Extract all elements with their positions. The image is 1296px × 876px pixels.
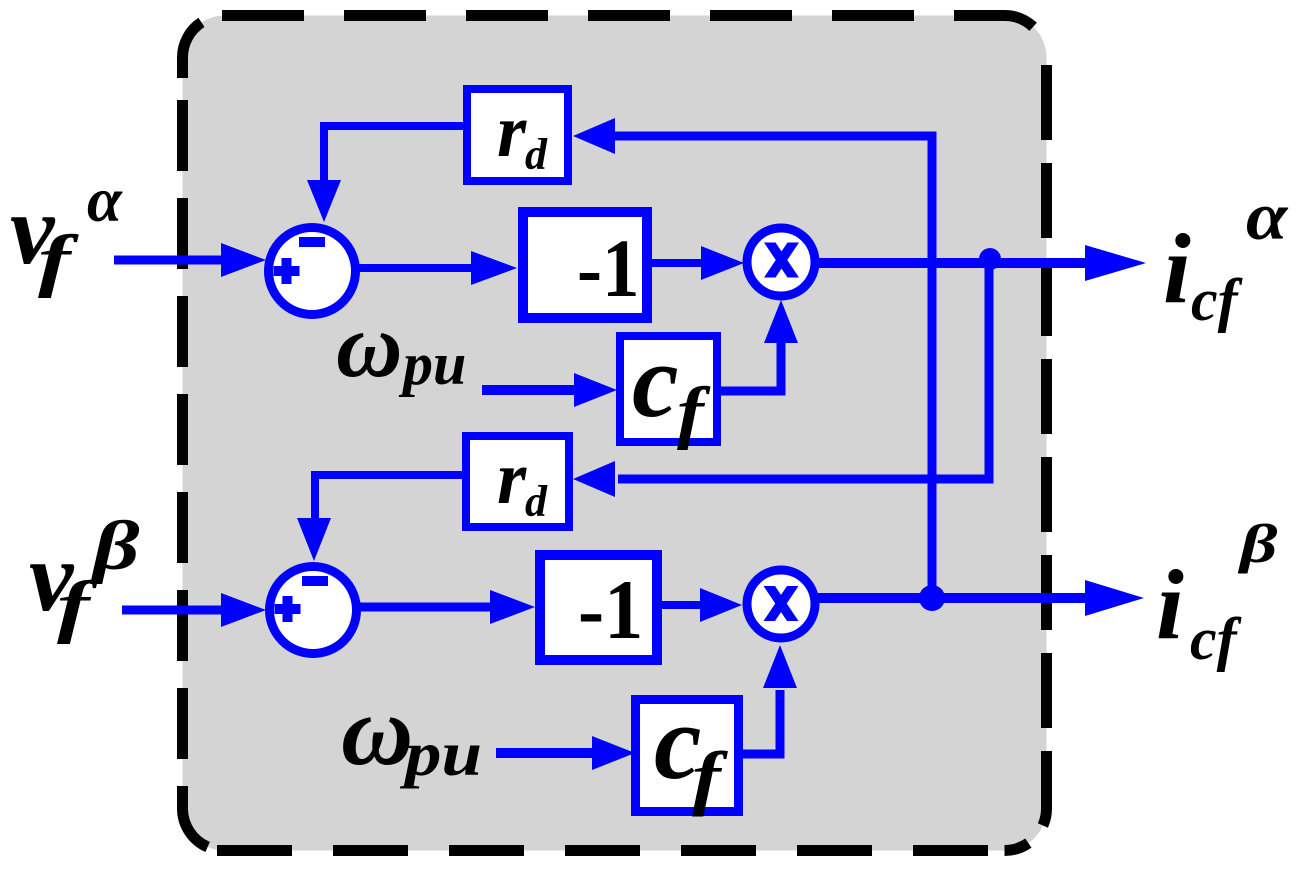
- block rd top: [467, 89, 568, 181]
- svg-text:α: α: [87, 165, 123, 235]
- arrowhead into multiplier top: [701, 246, 744, 280]
- wire cf top output to multiplier: [719, 340, 781, 391]
- -1 bottom box: [540, 555, 657, 660]
- svg-text:-1: -1: [577, 224, 640, 315]
- arrowhead up into multiplier bottom: [763, 645, 797, 688]
- svg-text:f: f: [38, 221, 79, 298]
- M2 cross mark: [764, 586, 799, 621]
- junction dot bottom: [919, 585, 945, 611]
- cf top box: [620, 336, 717, 442]
- sum2 circle: [270, 567, 357, 654]
- wire input vf-beta: [122, 606, 226, 615]
- svg-text:ω: ω: [341, 675, 413, 786]
- arrowhead into cf bottom: [592, 736, 635, 770]
- wire cf bottom output to multiplier: [741, 690, 780, 754]
- border top edge: [222, 16, 1047, 58]
- wire omega arrow top: [482, 385, 578, 395]
- rd bottom box: [466, 436, 569, 527]
- svg-text:r: r: [497, 437, 527, 520]
- multiplier M2 bottom: [747, 570, 815, 638]
- wire block -1 top to multiplier: [650, 259, 706, 267]
- multiplier M1 top: [747, 228, 815, 296]
- wire multiplier top to output: [813, 258, 1090, 268]
- label omega-pu bottom: [341, 675, 482, 789]
- svg-text:c: c: [632, 322, 679, 439]
- arrowhead into multiplier bottom: [700, 588, 742, 622]
- border right edge: [1005, 65, 1047, 851]
- svg-text:ω: ω: [336, 294, 403, 396]
- svg-text:-1: -1: [578, 562, 643, 656]
- svg-text:pu: pu: [398, 331, 466, 397]
- label omega-pu top: [336, 294, 466, 397]
- block rd bottom: [466, 436, 569, 527]
- wire input vf-alpha: [114, 256, 226, 265]
- arrowhead into rd top: [573, 118, 615, 154]
- cf bottom box: [636, 700, 739, 812]
- svg-text:β: β: [1238, 513, 1278, 574]
- svg-text:pu: pu: [400, 718, 482, 789]
- arrowhead down into sum2: [297, 518, 331, 561]
- sum2 minus sign: [302, 576, 328, 586]
- wire multiplier bottom to output: [813, 593, 1090, 603]
- sum1 plus sign: [274, 266, 300, 276]
- wire sum2 to block -1 bottom: [356, 603, 495, 612]
- wire cross feed B: top junction down to bottom rd: [618, 260, 989, 479]
- arrowhead into sum2: [221, 593, 266, 627]
- label vf-alpha input: [10, 165, 123, 299]
- summing junction sum1: [269, 228, 356, 315]
- svg-text:β: β: [90, 507, 140, 585]
- label vf-beta input: [29, 507, 140, 645]
- wire rd top output to sum1: [324, 126, 465, 184]
- svg-text:i: i: [1156, 549, 1184, 660]
- block cf bottom: [636, 684, 739, 817]
- svg-text:i: i: [1163, 213, 1191, 324]
- arrowhead into cf top: [574, 373, 617, 407]
- border left edge: [183, 100, 225, 851]
- wire omega arrow bottom: [496, 748, 596, 758]
- block -1 bottom: [540, 555, 657, 660]
- label icf-beta output: [1156, 513, 1277, 672]
- svg-text:d: d: [525, 477, 548, 526]
- wire sum1 to block -1 top: [355, 264, 474, 272]
- svg-text:cf: cf: [1191, 267, 1243, 333]
- M1 cross mark: [764, 243, 799, 278]
- arrowhead down into sum1: [307, 180, 341, 222]
- arrowhead output alpha: [1085, 245, 1146, 281]
- sum1 minus sign: [299, 237, 325, 247]
- -1 top box: [523, 212, 647, 318]
- sum2 plus sign: [275, 604, 301, 614]
- svg-text:r: r: [497, 90, 527, 173]
- arrowhead output beta: [1085, 580, 1144, 616]
- block cf top: [620, 322, 717, 451]
- arrowhead up into multiplier top: [764, 300, 798, 343]
- arrowhead into block -1 top: [471, 251, 517, 285]
- junction dot top: [979, 248, 1001, 270]
- block -1 top: [523, 212, 647, 318]
- arrowhead into sum1: [221, 243, 266, 277]
- wire block -1 bottom to multiplier: [660, 601, 704, 609]
- svg-text:cf: cf: [1190, 606, 1242, 672]
- M2 circle: [747, 570, 815, 638]
- rd top box: [467, 89, 568, 181]
- sum1 circle: [269, 228, 356, 315]
- wire rd bottom output to sum2: [315, 475, 464, 522]
- M1 circle: [747, 228, 815, 296]
- svg-text:α: α: [1246, 179, 1289, 254]
- border top-left corner dash: [183, 16, 225, 79]
- summing junction sum2: [270, 567, 357, 654]
- dashed boundary box: gray fill: [183, 16, 1047, 851]
- label icf-alpha output: [1163, 179, 1289, 333]
- svg-text:d: d: [525, 130, 548, 179]
- border bottom edge: [217, 845, 1005, 856]
- wire cross feed A: top rd feed from bottom junction: [610, 136, 932, 598]
- arrowhead into rd bottom: [573, 461, 615, 497]
- arrowhead into block -1 bottom: [490, 590, 535, 624]
